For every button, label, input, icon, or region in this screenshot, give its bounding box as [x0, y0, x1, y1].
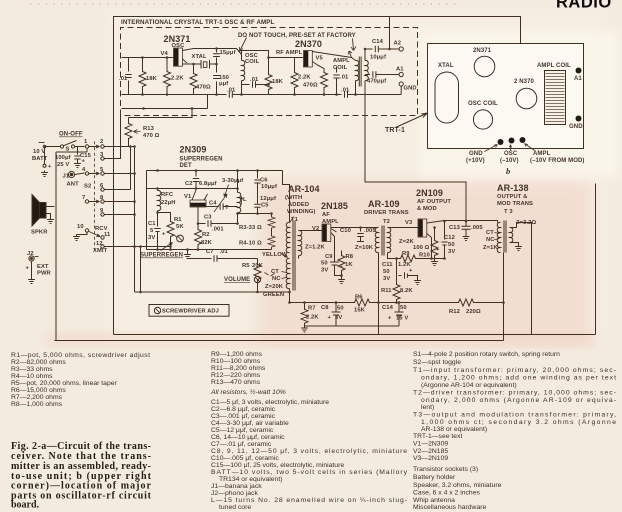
- R5 volume pot: [257, 259, 259, 263]
- svg-text:C6, 14—10 μμf, ceramic: C6, 14—10 μμf, ceramic: [211, 434, 285, 441]
- svg-text:DRIVER TRANS: DRIVER TRANS: [364, 210, 409, 216]
- svg-text:R9—1,200 ohms: R9—1,200 ohms: [211, 351, 263, 358]
- cap .01 rf bypass: [333, 67, 339, 95]
- svg-text:3V: 3V: [448, 249, 455, 255]
- board label arrows: [485, 144, 535, 152]
- R11: [396, 259, 398, 283]
- svg-text:DET: DET: [180, 163, 193, 169]
- svg-text:TR134 or equivalent): TR134 or equivalent): [219, 476, 282, 483]
- svg-text:R5: R5: [242, 263, 250, 269]
- xtal wire: [183, 63, 217, 65]
- A2 terminal: [399, 47, 403, 51]
- svg-text:AMPL COIL: AMPL COIL: [537, 63, 571, 69]
- svg-text:ADDED: ADDED: [288, 202, 309, 208]
- svg-text:C1—5 μf, 3 volts, electrolytic: C1—5 μf, 3 volts, electrolytic, miniatur…: [211, 399, 329, 406]
- svg-text:R12—220 ohms: R12—220 ohms: [211, 372, 261, 379]
- svg-text:CT: CT: [271, 269, 279, 275]
- svg-text:SCREWDRIVER ADJ: SCREWDRIVER ADJ: [162, 309, 219, 315]
- osc top rail: [122, 57, 174, 59]
- svg-text:R11: R11: [381, 288, 392, 294]
- svg-text:AF OUTPUT: AF OUTPUT: [417, 199, 451, 205]
- figure caption Fig. 2-a: [11, 441, 152, 511]
- svg-text:R10—100 ohms: R10—100 ohms: [211, 358, 261, 365]
- svg-text:S2: S2: [84, 184, 91, 190]
- svg-text:15K: 15K: [354, 308, 366, 314]
- svg-text:1,000 ohms ct; secondary 3.2 o: 1,000 ohms ct; secondary 3.2 ohms (Argon…: [421, 419, 616, 426]
- bus B y258 with C7: [188, 255, 258, 261]
- L coil: [237, 171, 239, 193]
- svg-text:RF AMPL: RF AMPL: [276, 50, 303, 56]
- svg-text:C2: C2: [185, 181, 193, 187]
- svg-text:470Ω: 470Ω: [303, 83, 318, 89]
- svg-text:ON-OFF: ON-OFF: [59, 132, 83, 138]
- svg-text:C4—3-30 μμf, air variable: C4—3-30 μμf, air variable: [211, 420, 289, 427]
- svg-text:MOD TRANS: MOD TRANS: [497, 201, 533, 207]
- svg-text:S1—4-pole 2 position rotary sw: S1—4-pole 2 position rotary switch, spri…: [413, 351, 560, 358]
- C8: [332, 303, 341, 327]
- svg-text:C9: C9: [325, 254, 333, 260]
- svg-text:R3—33 ohms: R3—33 ohms: [11, 366, 53, 373]
- svg-text:OSC: OSC: [504, 151, 518, 157]
- svg-text:2: 2: [100, 139, 103, 145]
- transistor V2: [322, 224, 331, 242]
- T1 added winding: [286, 258, 289, 288]
- svg-text:3V: 3V: [383, 276, 390, 282]
- svg-text:R6—15,000 ohms: R6—15,000 ohms: [11, 387, 66, 394]
- V1 base lead: [197, 207, 199, 224]
- svg-text:10μμf: 10μμf: [261, 184, 277, 190]
- svg-text:50: 50: [448, 242, 455, 248]
- svg-text:C12: C12: [444, 235, 455, 241]
- svg-text:82K: 82K: [201, 240, 213, 246]
- svg-text:EXT: EXT: [37, 264, 49, 270]
- svg-text:.01: .01: [227, 88, 236, 94]
- svg-text:R7: R7: [308, 306, 316, 312]
- svg-text:6.8μμf: 6.8μμf: [199, 181, 217, 187]
- svg-text:GREEN: GREEN: [263, 292, 284, 298]
- pin 5: [101, 172, 104, 175]
- R6: [290, 302, 353, 304]
- svg-text:R3-33 Ω: R3-33 Ω: [239, 225, 262, 231]
- svg-text:50: 50: [400, 305, 407, 311]
- T2 sec to V3: [388, 227, 419, 229]
- svg-text:+: +: [388, 316, 392, 322]
- pin 8: [101, 200, 104, 203]
- capacitor 150uuf: [216, 64, 218, 95]
- svg-text:(–10V): (–10V): [500, 158, 519, 164]
- svg-text:R7—2,200 ohms: R7—2,200 ohms: [11, 394, 63, 401]
- pin 10: [85, 229, 88, 232]
- svg-text:BATT: BATT: [32, 156, 48, 162]
- svg-text:ondary, 1,200 ohms; add one wi: ondary, 1,200 ohms; add one winding as p…: [421, 375, 616, 382]
- svg-text:Miscellaneous hardware: Miscellaneous hardware: [413, 504, 487, 511]
- svg-text:CT: CT: [486, 230, 494, 236]
- svg-text:7: 7: [82, 195, 85, 201]
- svg-text:3V: 3V: [148, 235, 155, 241]
- svg-text:Battery holder: Battery holder: [413, 474, 456, 481]
- svg-text:S2—spst toggle: S2—spst toggle: [413, 359, 461, 366]
- 470uuf cap to A1: [365, 71, 399, 77]
- svg-text:10: 10: [77, 224, 84, 230]
- svg-text:TRT-1: TRT-1: [385, 127, 405, 134]
- svg-text:A2: A2: [394, 41, 402, 47]
- lower-right return bus: [114, 184, 596, 335]
- riser to T1 primary: [283, 171, 290, 223]
- svg-text:RFC: RFC: [161, 192, 174, 198]
- svg-text:T2: T2: [383, 219, 390, 225]
- svg-text:.005: .005: [364, 228, 376, 234]
- svg-text:Whip antenna: Whip antenna: [413, 497, 455, 504]
- svg-text:+: +: [26, 266, 30, 272]
- svg-text:15μμf: 15μμf: [220, 50, 236, 56]
- svg-text:INTERNATIONAL CRYSTAL TRT-1 OS: INTERNATIONAL CRYSTAL TRT-1 OSC & RF AMP…: [121, 19, 275, 26]
- T1 transformer core: [293, 221, 295, 291]
- R7: [304, 303, 306, 308]
- transistor V3: [418, 219, 427, 237]
- svg-text:AMPL: AMPL: [322, 219, 339, 225]
- switch gang dashed: [94, 142, 96, 251]
- svg-text:C4: C4: [209, 201, 217, 207]
- svg-text:2N370: 2N370: [295, 39, 322, 49]
- svg-text:A1: A1: [396, 67, 404, 73]
- screwdriver adj box: [149, 305, 229, 317]
- speaker: [40, 203, 47, 219]
- svg-text:100μf: 100μf: [55, 155, 71, 161]
- C12: [441, 221, 447, 258]
- svg-text:C1: C1: [148, 221, 156, 227]
- svg-text:board.: board.: [11, 500, 40, 511]
- left bus: [56, 149, 87, 341]
- C6 C5 column: [254, 171, 260, 214]
- do-not-touch arrows: [240, 38, 247, 52]
- svg-text:J2—phono jack: J2—phono jack: [211, 490, 258, 497]
- C10 cap: [357, 228, 364, 242]
- svg-text:J2: J2: [27, 251, 34, 257]
- svg-text:R12: R12: [449, 309, 460, 315]
- J2 ext pwr: [29, 256, 34, 261]
- svg-text:(–10V FROM MOD): (–10V FROM MOD): [530, 158, 585, 164]
- svg-text:Z=1K: Z=1K: [483, 245, 498, 251]
- svg-text:C3—.001 μf, ceramic: C3—.001 μf, ceramic: [211, 413, 276, 420]
- svg-text:NC: NC: [486, 237, 495, 243]
- resistor 470 rf emitter: [318, 65, 325, 71]
- C1 cap: [154, 223, 160, 250]
- svg-text:18K: 18K: [272, 79, 284, 85]
- svg-text:2N371: 2N371: [473, 48, 492, 54]
- svg-text:(Argonne AR-104 or equivalent): (Argonne AR-104 or equivalent): [421, 382, 517, 389]
- svg-text:50: 50: [337, 306, 344, 312]
- svg-text:ANT: ANT: [67, 182, 80, 188]
- C14: [395, 303, 404, 327]
- svg-text:GND: GND: [404, 86, 417, 92]
- 3-30uuf leader: [224, 185, 229, 197]
- svg-text:470μμf: 470μμf: [367, 79, 386, 85]
- svg-text:Speaker, 3.2 ohms, miniature: Speaker, 3.2 ohms, miniature: [413, 482, 502, 489]
- C13 cap to ground: [462, 223, 471, 235]
- svg-text:470Ω: 470Ω: [196, 85, 211, 91]
- svg-text:2N109: 2N109: [416, 188, 443, 198]
- svg-text:T3—output and modulation trans: T3—output and modulation transformer: pr…: [413, 412, 616, 419]
- svg-text:C14: C14: [382, 305, 394, 311]
- gnd on bus A: [187, 250, 189, 253]
- R3 R4 column: [258, 214, 272, 216]
- svg-text:OSC: OSC: [172, 43, 186, 49]
- on-off switch S: [60, 145, 63, 148]
- svg-text:R13: R13: [143, 126, 155, 132]
- svg-text:(WITH: (WITH: [285, 195, 302, 201]
- svg-text:A1: A1: [574, 76, 582, 82]
- wire y206 + C4 trimmer: [206, 203, 238, 209]
- svg-text:12μμf: 12μμf: [260, 196, 276, 202]
- svg-text:T 3: T 3: [504, 209, 513, 215]
- svg-text:SUPERREGEN: SUPERREGEN: [140, 253, 183, 259]
- svg-text:AR-104: AR-104: [288, 184, 320, 194]
- svg-text:C8: C8: [321, 305, 329, 311]
- svg-text:25 V: 25 V: [57, 162, 69, 168]
- svg-text:2 N370: 2 N370: [514, 79, 535, 85]
- svg-text:T1: T1: [291, 217, 299, 223]
- svg-text:C3: C3: [204, 215, 212, 221]
- resistor 2.2K rf: [294, 58, 296, 71]
- wire L to C5 bottom: [238, 213, 258, 215]
- svg-text:10μμf: 10μμf: [370, 55, 386, 61]
- svg-text:2.2K: 2.2K: [171, 76, 184, 82]
- svg-text:R8: R8: [346, 254, 354, 260]
- cap C15: [74, 147, 80, 162]
- svg-text:T2—driver transformer: primary: T2—driver transformer: primary, 10,000 o…: [413, 390, 616, 397]
- svg-text:C14: C14: [372, 39, 384, 45]
- svg-text:AF: AF: [322, 212, 330, 218]
- svg-text:V1: V1: [184, 194, 192, 200]
- C14 wire to A2: [365, 46, 399, 52]
- T2 primary bottom feed: [378, 253, 380, 335]
- svg-text:GND: GND: [469, 151, 483, 157]
- pin 12: [101, 245, 104, 248]
- svg-text:& MOD: & MOD: [417, 206, 437, 212]
- board ampl coil: [545, 71, 566, 125]
- emitter bus wire R12 row: [379, 302, 504, 304]
- svg-text:(+10V): (+10V): [466, 158, 485, 164]
- resistor 18K osc: [142, 58, 144, 70]
- svg-text:R13—470 ohms: R13—470 ohms: [211, 379, 261, 386]
- svg-text:μμf: μμf: [219, 81, 228, 87]
- transistor V1: [190, 200, 206, 207]
- T3 secondary: [510, 227, 513, 242]
- svg-text:R8—1,000 ohms: R8—1,000 ohms: [11, 401, 63, 408]
- board drawing rect: [428, 44, 584, 149]
- svg-text:3-30μμf: 3-30μμf: [222, 178, 243, 184]
- svg-text:.01: .01: [119, 76, 128, 82]
- antenna drop wire to A2: [389, 17, 391, 50]
- svg-text:Case, 6 x 4 x 2 inches: Case, 6 x 4 x 2 inches: [413, 490, 480, 497]
- svg-text:+: +: [48, 164, 52, 170]
- svg-text:C15—100 μf, 25 volts, electrol: C15—100 μf, 25 volts, electrolytic, mini…: [211, 462, 344, 469]
- svg-text:3V: 3V: [335, 315, 342, 321]
- svg-text:15 V: 15 V: [396, 316, 408, 322]
- svg-text:Z=20K: Z=20K: [265, 284, 284, 290]
- svg-text:Z=10K: Z=10K: [355, 245, 374, 251]
- svg-text:.01: .01: [220, 249, 229, 255]
- V3 collector to T3: [427, 221, 498, 224]
- CT NC arrows t3: [495, 233, 500, 240]
- bus A y249: [147, 249, 272, 251]
- svg-text:OSC COIL: OSC COIL: [468, 101, 498, 107]
- svg-text:R11—8,200 ohms: R11—8,200 ohms: [211, 365, 266, 372]
- capacitor .01 osc: [128, 58, 130, 95]
- svg-text:+: +: [409, 268, 413, 274]
- svg-text:R2—82,000 ohms: R2—82,000 ohms: [11, 359, 66, 366]
- pin 9: [101, 213, 104, 216]
- V2 collector wire to T2: [331, 227, 379, 229]
- svg-text:AMPL: AMPL: [533, 151, 551, 157]
- svg-text:50: 50: [321, 261, 328, 267]
- V3 emitter down: [431, 238, 433, 259]
- svg-text:Z=3.2Ω: Z=3.2Ω: [516, 220, 536, 226]
- C11: [399, 272, 418, 278]
- T3 primary: [497, 222, 500, 252]
- xmit wire: [104, 246, 170, 248]
- svg-text:2.2K: 2.2K: [298, 75, 311, 81]
- pink tint band over audio section: [258, 180, 592, 344]
- pin 2: [101, 145, 104, 148]
- R1 pot: [158, 213, 171, 220]
- svg-text:SUPERREGEN: SUPERREGEN: [180, 157, 223, 163]
- wiper arrows: [89, 145, 100, 148]
- svg-text:AR-138 or equivalent): AR-138 or equivalent): [421, 426, 487, 433]
- R9: [397, 258, 399, 260]
- ampl coil transformer: [312, 52, 355, 61]
- svg-text:V3—2N109: V3—2N109: [413, 455, 448, 462]
- R8: [341, 251, 343, 254]
- xtal: [201, 60, 210, 69]
- board 2n371 circle: [474, 56, 495, 77]
- svg-text:+: +: [162, 232, 166, 238]
- svg-text:All resistors, ½-watt 10%: All resistors, ½-watt 10%: [210, 388, 286, 396]
- svg-text:C8, 9, 11, 12—50 μf, 3 volts,: C8, 9, 11, 12—50 μf, 3 volts, electrolyt…: [211, 448, 407, 455]
- figure frame left + top: [114, 17, 521, 335]
- svg-text:+: +: [328, 315, 332, 321]
- pin 3: [101, 157, 104, 160]
- svg-text:R4—10 ohms: R4—10 ohms: [11, 373, 53, 380]
- svg-text:lent): lent): [421, 404, 434, 411]
- svg-text:NC: NC: [272, 276, 281, 282]
- svg-text:L—15 turns No. 28 enamelled wi: L—15 turns No. 28 enamelled wire on ¼-in…: [211, 497, 407, 504]
- svg-text:R9: R9: [402, 251, 410, 257]
- svg-text:V2—2N185: V2—2N185: [413, 448, 448, 455]
- svg-text:C5: C5: [261, 203, 269, 209]
- svg-text:SPKR: SPKR: [31, 230, 48, 236]
- svg-text:b: b: [506, 166, 510, 176]
- T1 label leader: [290, 217, 294, 223]
- battery: [39, 142, 45, 144]
- svg-text:TRT-1—see text: TRT-1—see text: [413, 433, 462, 440]
- osc bottom rail with two series .01 caps: [122, 91, 402, 97]
- svg-text:C7: C7: [206, 249, 214, 255]
- svg-text:J1—banana jack: J1—banana jack: [211, 483, 262, 490]
- T2 transformer: [375, 227, 378, 252]
- T3 transformer core: [504, 221, 506, 253]
- A1 terminal: [399, 72, 403, 76]
- superregen arrow: [161, 243, 173, 251]
- svg-text:20K: 20K: [252, 263, 264, 269]
- board osc coil circle: [473, 110, 492, 129]
- light interior of figure: [106, 10, 602, 340]
- T3 primary bottom down: [503, 253, 505, 341]
- transistor V4: [174, 48, 183, 66]
- svg-text:.005: .005: [471, 225, 483, 231]
- svg-text:10 V: 10 V: [33, 149, 45, 155]
- svg-text:C10: C10: [340, 228, 351, 234]
- detector top rail: [147, 170, 283, 172]
- svg-text:V4: V4: [161, 51, 169, 57]
- svg-text:OUTPUT &: OUTPUT &: [497, 194, 527, 200]
- C9 cap: [330, 233, 342, 276]
- transistor V5: [304, 51, 313, 68]
- svg-text:C5—12 μμf, ceramic: C5—12 μμf, ceramic: [211, 427, 274, 434]
- svg-text:R5—pot, 20,000 ohms, linear ta: R5—pot, 20,000 ohms, linear taper: [11, 380, 118, 387]
- svg-text:tuned core: tuned core: [219, 504, 251, 511]
- svg-text:8.2K: 8.2K: [400, 288, 413, 294]
- R10: [434, 228, 436, 239]
- svg-text:AMPL: AMPL: [333, 58, 350, 64]
- svg-text:R6: R6: [355, 295, 363, 301]
- pin 4: [85, 172, 88, 175]
- svg-text:22μH: 22μH: [161, 200, 176, 206]
- svg-text:R2: R2: [202, 232, 210, 238]
- svg-text:2N185: 2N185: [321, 201, 348, 211]
- svg-text:GND: GND: [569, 124, 583, 130]
- rf top rail: [242, 51, 304, 58]
- J1 ant jack: [68, 171, 74, 177]
- svg-text:C2—6.8 μμf, ceramic: C2—6.8 μμf, ceramic: [211, 406, 276, 413]
- white patch behind board drawing: [420, 31, 619, 177]
- svg-text:BATT—10 volts, two 5-volt cell: BATT—10 volts, two 5-volt cells in serie…: [211, 469, 408, 476]
- svg-text:AR-109: AR-109: [368, 199, 400, 209]
- svg-text:.01: .01: [340, 75, 349, 81]
- svg-text:XMIT: XMIT: [93, 248, 108, 254]
- svg-text:1K: 1K: [345, 262, 353, 268]
- svg-text:11: 11: [104, 232, 111, 238]
- svg-text:T: T: [225, 205, 229, 211]
- svg-text:+: +: [436, 247, 440, 253]
- svg-text:100 Ω: 100 Ω: [413, 245, 430, 251]
- C2 cap: [193, 171, 199, 189]
- svg-text:3V: 3V: [321, 268, 328, 274]
- CT NC arrows t1: [282, 272, 287, 279]
- R12: [457, 299, 476, 306]
- cap .01 coupling osc-rf: [242, 81, 269, 87]
- svg-text:R1—pot, 5,000 ohms, screwdrive: R1—pot, 5,000 ohms, screwdriver adjust: [11, 352, 150, 359]
- svg-text:C10—.005 μf, ceramic: C10—.005 μf, ceramic: [211, 455, 279, 462]
- TRT-1 pointer arrow: [396, 113, 428, 128]
- TRT-1 dashed box: [121, 28, 418, 116]
- capacitor 15uuf: [216, 49, 218, 65]
- pin 11: [101, 236, 104, 239]
- T1 secondary winding: [299, 230, 302, 255]
- svg-text:WINDING): WINDING): [287, 209, 316, 215]
- svg-text:ondary, 2,000 ohms (Argonne AR: ondary, 2,000 ohms (Argonne AR-109 or eq…: [421, 397, 616, 404]
- svg-text:COIL: COIL: [333, 65, 348, 71]
- svg-text:V1—2N309: V1—2N309: [413, 441, 448, 448]
- svg-text:PWR: PWR: [37, 271, 52, 277]
- svg-text:R10: R10: [419, 253, 430, 259]
- svg-text:50: 50: [383, 269, 390, 275]
- svg-text:XTAL: XTAL: [192, 54, 207, 60]
- svg-text:Transistor sockets (3): Transistor sockets (3): [413, 466, 478, 473]
- svg-text:YELLOW: YELLOW: [262, 252, 288, 258]
- svg-text:V2: V2: [312, 226, 319, 232]
- svg-text:T1—input transformer: primary,: T1—input transformer: primary, 20,000 oh…: [413, 367, 616, 374]
